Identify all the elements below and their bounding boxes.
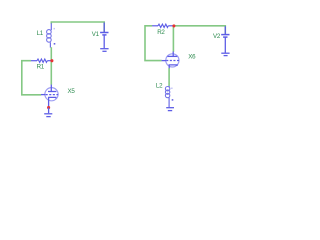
svg-text:L1: L1 <box>37 30 44 37</box>
battery V1 <box>100 23 108 49</box>
svg-text:V1: V1 <box>92 31 100 38</box>
wire X6 cathode to L2 <box>168 68 170 86</box>
ground under V2 <box>221 53 229 55</box>
junction dot R2/V2 <box>172 24 175 27</box>
plate lead <box>50 85 52 92</box>
cathode <box>49 97 56 107</box>
inductor L1 <box>47 23 56 47</box>
cathode <box>169 65 177 69</box>
op-amp? no : triode X5 <box>41 85 58 108</box>
wire junction down to X6 plate <box>172 26 174 52</box>
ground under V1 <box>100 49 108 52</box>
cathode pin dot <box>47 106 50 109</box>
battery V2 <box>221 26 229 53</box>
ground under L2 <box>166 108 174 111</box>
svg-text:R1: R1 <box>37 64 45 71</box>
triode X6 <box>162 52 179 69</box>
grid dashes <box>46 94 59 96</box>
plate lead <box>172 52 174 57</box>
plate bar <box>167 55 177 57</box>
svg-text:X5: X5 <box>68 88 76 95</box>
grid lead <box>162 60 166 62</box>
resistor R2 <box>152 24 173 27</box>
inductor L2 <box>165 86 173 107</box>
plate bar <box>48 91 56 93</box>
wire L1 bottom to junction to X5 plate <box>50 47 52 85</box>
ground under X5 <box>44 108 52 117</box>
wire R2 left bracket to X6 grid <box>145 26 162 61</box>
svg-text:X6: X6 <box>188 54 196 61</box>
wire junction to V2 top <box>174 26 226 34</box>
grid lead <box>41 94 45 96</box>
junction dot L1/R1 <box>50 59 53 62</box>
svg-text:L2: L2 <box>156 82 163 89</box>
wire R1 left bracket to X5 grid <box>22 61 41 95</box>
resistor R1 <box>31 59 51 62</box>
envelope circle <box>166 54 179 67</box>
grid dashes <box>166 60 179 62</box>
svg-text:V2: V2 <box>213 33 221 40</box>
envelope circle <box>45 88 58 101</box>
svg-text:R2: R2 <box>157 29 165 36</box>
wire top-left net: L1 top to V1 top <box>51 22 104 32</box>
